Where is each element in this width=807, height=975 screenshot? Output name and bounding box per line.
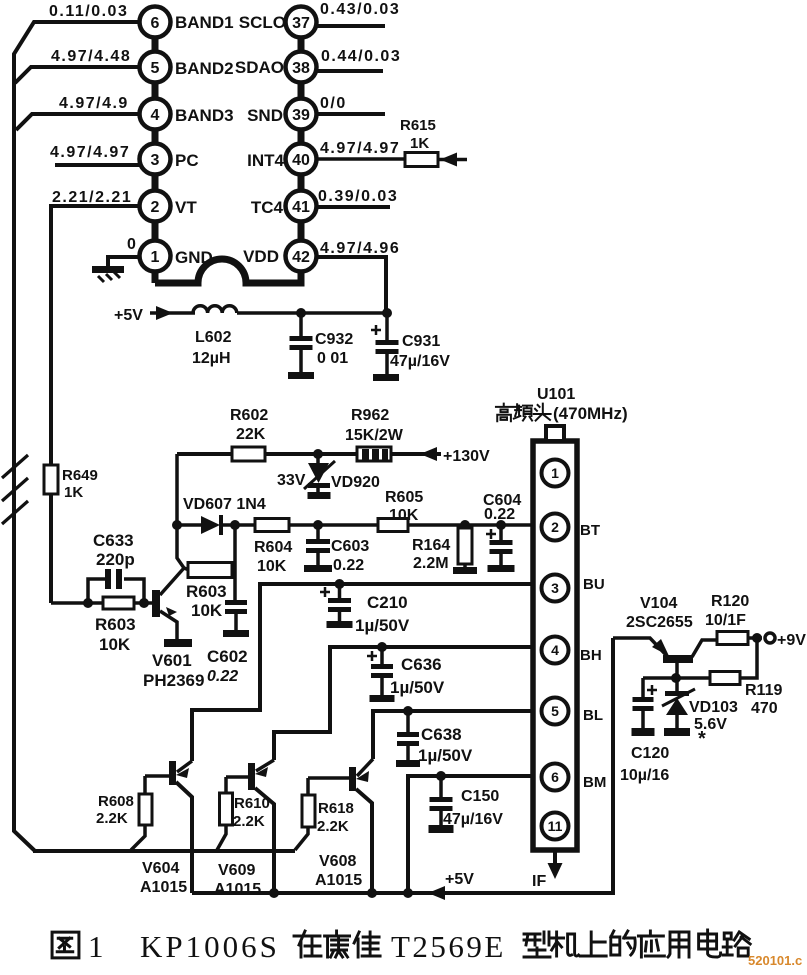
capacitor C633 220p [88,531,144,603]
svg-text:C633: C633 [93,531,134,550]
transistor V608 A1015 [308,759,373,893]
resistor R602 [230,407,268,461]
node C603 [313,520,323,530]
svg-text:KP1006S: KP1006S [140,929,280,964]
svg-text:BU: BU [583,576,605,593]
resistor R610 [217,793,270,850]
node +9V [752,633,762,643]
svg-text:PC: PC [175,151,199,170]
svg-text:R608: R608 [98,793,134,810]
node C638 [403,706,413,716]
svg-text:R120: R120 [711,593,749,610]
tuner pin 1 [542,460,569,487]
pin labels right [235,13,286,266]
resistor R605 [378,489,423,532]
svg-text:0.22: 0.22 [484,506,515,523]
arrow into R615 [438,153,467,167]
svg-text:INT4: INT4 [247,151,284,170]
left vertical from R602 row to V601 [177,454,184,568]
svg-text:5: 5 [151,60,160,77]
tuner pin names [580,522,606,791]
wire pin39 stub [316,112,385,116]
svg-text:0.11/0.03: 0.11/0.03 [49,3,128,20]
wire: BAND2 pin5 branch [15,67,140,83]
svg-text:33V: 33V [277,472,306,489]
svg-text:1µ/50V: 1µ/50V [355,616,410,635]
svg-text:5: 5 [551,703,559,719]
svg-text:L602: L602 [195,329,232,346]
wire: BAND3 pin4 branch [16,114,140,130]
diode VD607 1N4 [183,496,266,535]
svg-text:BM: BM [583,774,606,791]
svg-text:IF: IF [532,873,546,890]
wire pin38 stub [316,69,383,73]
svg-text:C931: C931 [402,333,440,350]
svg-text:4: 4 [551,642,559,658]
svg-text:38: 38 [292,60,310,77]
node bus BM [403,888,413,898]
svg-text:40: 40 [292,152,310,169]
transistor V104 2SC2655 [626,595,717,679]
svg-text:VD920: VD920 [331,474,380,491]
svg-text:R618: R618 [318,800,354,817]
node base V104 [671,673,681,683]
svg-text:SDAO: SDAO [235,58,284,77]
svg-text:10K: 10K [99,635,131,654]
svg-text:V604: V604 [142,860,179,877]
svg-text:0.43/0.03: 0.43/0.03 [320,1,400,18]
node R602/R962/VD920 [313,449,323,459]
svg-text:15K/2W: 15K/2W [345,427,404,444]
svg-text:C150: C150 [461,788,499,805]
svg-text:47µ/16V: 47µ/16V [443,811,503,828]
wire pin37 stub [316,24,385,28]
node C636 [377,642,387,652]
svg-text:2.2M: 2.2M [413,555,449,572]
tuner pin 3 [542,575,569,602]
svg-text:2: 2 [151,199,160,216]
svg-text:1µ/50V: 1µ/50V [390,678,445,697]
svg-text:C210: C210 [367,593,408,612]
svg-text:R602: R602 [230,407,268,424]
node C604 [496,520,506,530]
tuner pin 2 [542,514,569,541]
wire pin40 to R615 [316,157,405,161]
svg-text:1K: 1K [64,484,83,501]
svg-text:4.97/4.97: 4.97/4.97 [50,144,130,161]
svg-text:0.44/0.03: 0.44/0.03 [321,48,401,65]
tuner title 470MHz [496,404,628,423]
node after VD607 [230,520,240,530]
wire base row V601 [51,601,155,605]
pin 38 [286,52,317,83]
svg-text:4.97/4.48: 4.97/4.48 [51,48,131,65]
watermark [748,953,802,968]
svg-text:4.97/4.97: 4.97/4.97 [320,140,400,157]
svg-text:*: * [698,728,706,750]
resistor R608 [96,793,152,850]
tuner pin 6 [542,764,569,791]
svg-text:6: 6 [151,15,160,32]
svg-text:470: 470 [751,700,778,717]
svg-text:1: 1 [151,249,160,266]
svg-text:4.97/4.9: 4.97/4.9 [59,95,129,112]
transistor V601 PH2369 [143,568,204,690]
voltage labels left column [49,3,136,253]
svg-text:R119: R119 [745,682,782,699]
svg-text:TC4: TC4 [251,198,284,217]
transistor V604 A1015 [140,761,192,896]
wire BT row [177,523,531,527]
svg-text:C638: C638 [421,725,462,744]
svg-text:+130V: +130V [443,448,490,465]
wire BL row [373,711,531,759]
svg-text:11: 11 [548,818,563,834]
wire C602 vertical [233,525,237,600]
resistor R603 (base) [95,597,136,654]
resistor R119 [710,672,782,718]
svg-text:0 01: 0 01 [317,350,348,367]
capacitor C604 [483,492,521,572]
wire R119 branch [643,638,757,678]
svg-text:4: 4 [151,107,160,124]
svg-text:R610: R610 [234,795,270,812]
pin 1 [140,241,171,272]
node C633 right [139,598,149,608]
svg-text:2.21/2.21: 2.21/2.21 [52,189,132,206]
svg-text:VDD: VDD [243,247,279,266]
resistor R120 [705,593,762,645]
tuner U101 box [533,426,577,850]
svg-text:+5V: +5V [114,307,143,324]
svg-text:39: 39 [292,107,310,124]
resistor R618 [295,795,354,850]
wire V104 emitter to bus [613,638,667,656]
wire pin42 to +5V node [316,257,386,313]
svg-text:SND: SND [247,106,283,125]
ground at pin 1 [92,257,140,282]
voltage labels right column [318,1,401,257]
pin 39 [286,99,317,130]
svg-text:BAND1: BAND1 [175,13,234,32]
svg-text:R615: R615 [400,117,436,134]
resistor R962 [345,407,404,461]
wire BM row to bus [408,776,531,893]
+130V arrow [420,447,490,465]
pin 41 [286,191,317,222]
svg-text:VT: VT [175,198,197,217]
wire: PC pin3 stub [55,163,140,167]
svg-text:PH2369: PH2369 [143,671,204,690]
svg-text:A1015: A1015 [214,881,261,898]
node bus V608 [367,888,377,898]
svg-text:1: 1 [551,465,559,481]
node R164 [460,520,470,530]
capacitor C932 [288,313,353,379]
svg-text:A1015: A1015 [315,872,362,889]
resistor R604 [254,519,292,576]
svg-text:R164: R164 [412,537,450,554]
svg-text:10K: 10K [257,558,287,575]
svg-text:2.2K: 2.2K [317,818,349,835]
svg-text:0.22: 0.22 [207,668,238,685]
svg-text:T2569E: T2569E [391,929,506,964]
capacitor C210 [320,584,410,635]
resistor R615 [400,117,438,167]
node bus V609 [269,888,279,898]
IF output arrow [532,851,563,890]
svg-text:2: 2 [551,519,559,535]
wire pin41 stub [316,205,390,209]
svg-text:BAND3: BAND3 [175,106,234,125]
zener VD103 5.6V [662,678,738,750]
svg-text:0/0: 0/0 [320,95,347,112]
svg-text:220p: 220p [96,550,135,569]
capacitor C150 [429,776,504,833]
capacitor C931 [371,313,450,381]
svg-text:3: 3 [551,580,559,596]
svg-text:BAND2: BAND2 [175,59,234,78]
svg-text:0.22: 0.22 [333,557,364,574]
pin 3 [140,144,171,175]
svg-text:4.97/4.96: 4.97/4.96 [320,240,400,257]
wire: BAND1 pin6 to left bus [14,22,140,851]
capacitor C638 [396,711,473,767]
node C150 [436,771,446,781]
pin 40 [286,144,317,175]
resistor R603 (collector) [184,563,236,621]
svg-text:R605: R605 [385,489,423,506]
node VD607 anode [172,520,182,530]
svg-text:U101: U101 [537,386,575,403]
IC KP1006S left edge [152,37,159,283]
+5V bus label [445,871,474,888]
svg-text:37: 37 [292,15,310,32]
capacitor C120 [620,678,669,784]
svg-text:2.2K: 2.2K [96,810,128,827]
wire BU row [192,584,531,761]
svg-text:V608: V608 [319,853,356,870]
svg-text:BT: BT [580,522,600,539]
svg-text:BL: BL [583,707,603,724]
pin 6 [140,7,171,38]
inductor L602 [192,306,387,367]
svg-text:C602: C602 [207,647,248,666]
tuner pin 11 [542,813,569,840]
wire BH row [274,647,531,760]
pin 5 [140,52,171,83]
svg-text:SCLO: SCLO [239,13,286,32]
svg-text:6: 6 [551,769,559,785]
pin 4 [140,99,171,130]
svg-text:BH: BH [580,647,602,664]
capacitor C603 [304,525,369,574]
+5V feed arrow [114,306,195,324]
pin 42 [286,241,317,272]
pin 37 [286,7,317,38]
transistor V609 A1015 [214,760,274,898]
U101 labels [537,386,575,403]
svg-text:VD607 1N4: VD607 1N4 [183,496,266,513]
wire band bundle line A [33,849,295,853]
node L602/C932 [296,308,306,318]
capacitor C636 [367,647,445,702]
pin labels left [175,13,234,267]
wire top row R602/R962 [177,452,441,456]
node C633 left [83,598,93,608]
svg-text:42: 42 [292,249,310,266]
svg-text:C636: C636 [401,655,442,674]
svg-text:R603: R603 [186,582,227,601]
svg-text:520101.c: 520101.c [748,953,802,968]
svg-text:(470MHz): (470MHz) [553,404,628,423]
svg-text:+9V: +9V [777,632,806,649]
svg-text:A1015: A1015 [140,879,187,896]
svg-text:R604: R604 [254,539,292,556]
svg-text:C120: C120 [631,745,669,762]
zener VD920 33V [277,454,380,499]
svg-text:22K: 22K [236,426,266,443]
cable break slashes [2,455,28,524]
tuner pin 5 [542,698,569,725]
svg-text:GND: GND [175,248,213,267]
svg-text:2SC2655: 2SC2655 [626,614,693,631]
node C210 [335,579,345,589]
svg-text:1K: 1K [410,135,429,152]
tuner pin 4 [542,637,569,664]
svg-text:3: 3 [151,152,160,169]
svg-text:C603: C603 [331,538,369,555]
+9V terminal [765,632,806,649]
svg-text:12µH: 12µH [192,350,231,367]
resistor R649 [44,465,98,501]
resistor R164 [412,525,477,574]
svg-text:1µ/50V: 1µ/50V [418,746,473,765]
capacitor C602 [207,600,249,685]
svg-text:V601: V601 [152,651,192,670]
svg-text:V104: V104 [640,595,677,612]
IC KP1006S right edge [298,37,305,283]
svg-text:2.2K: 2.2K [233,813,265,830]
svg-text:10µ/16: 10µ/16 [620,767,669,784]
pin 2 [140,191,171,222]
svg-text:10K: 10K [389,507,419,524]
wire: VT pin2 down to R649 [51,206,140,603]
svg-text:41: 41 [292,199,310,216]
svg-text:10/1F: 10/1F [705,612,746,629]
IC KP1006S bottom edge with notch [155,259,301,283]
svg-text:0.39/0.03: 0.39/0.03 [318,188,398,205]
svg-text:C932: C932 [315,331,353,348]
svg-text:0: 0 [127,236,136,253]
svg-text:1: 1 [88,929,104,964]
svg-text:R962: R962 [351,407,389,424]
svg-text:47µ/16V: 47µ/16V [390,353,450,370]
node C931/pin42 [382,308,392,318]
caption text [52,929,750,964]
svg-text:VD103: VD103 [689,699,738,716]
wire +5V bus [192,638,613,900]
svg-text:+5V: +5V [445,871,474,888]
svg-text:V609: V609 [218,862,255,879]
svg-text:R649: R649 [62,467,98,484]
svg-text:R603: R603 [95,615,136,634]
svg-text:10K: 10K [191,601,223,620]
